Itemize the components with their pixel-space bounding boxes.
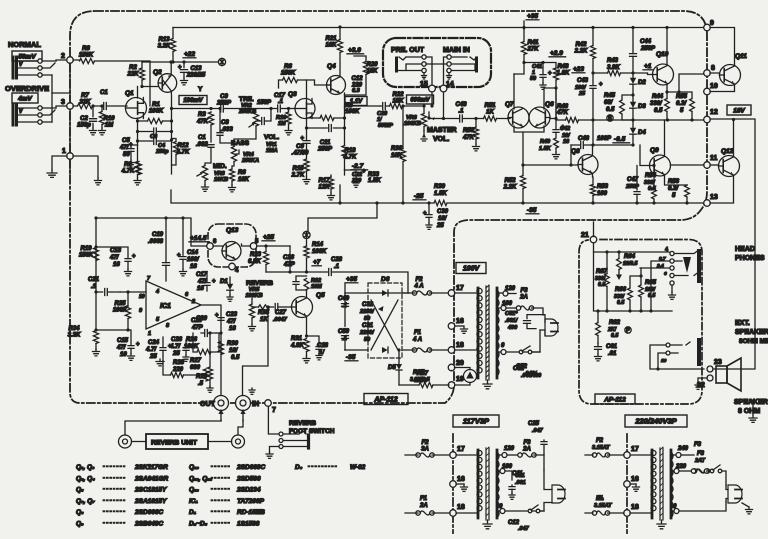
- svg-text:2.2K: 2.2K: [503, 185, 517, 191]
- svg-text:17: 17: [457, 446, 465, 453]
- svg-text:4 A: 4 A: [412, 337, 422, 343]
- resistor R36: [391, 104, 406, 204]
- capacitor C1: [100, 90, 127, 110]
- resistor R50: [462, 119, 480, 151]
- svg-text:OVERDRIVE: OVERDRIVE: [5, 84, 49, 93]
- svg-text:2SA1015Y: 2SA1015Y: [134, 498, 167, 505]
- jack PRE OUT contacts: [397, 55, 427, 79]
- legend column 2: [189, 464, 265, 528]
- svg-text:C31: C31: [362, 323, 374, 329]
- svg-text:NORMAL: NORMAL: [8, 40, 41, 49]
- transistor Q10: [653, 51, 674, 85]
- svg-text:.0068: .0068: [148, 239, 164, 245]
- svg-text:MASTER: MASTER: [427, 127, 457, 134]
- wire Q2 emitter: [170, 62, 172, 75]
- svg-text:10K: 10K: [238, 177, 250, 183]
- svg-text:19: 19: [456, 376, 464, 383]
- ext spk contacts: [650, 342, 704, 371]
- foot switch jack: [279, 431, 309, 449]
- svg-text:16: 16: [190, 264, 197, 270]
- node 21: [581, 222, 597, 243]
- tx2 tap 120: [497, 446, 520, 458]
- node 9: [704, 20, 714, 31]
- svg-text:R22: R22: [392, 92, 404, 98]
- capacitor C17t: [274, 93, 295, 112]
- capacitor C25b: [528, 421, 547, 455]
- tx3 core: [657, 447, 666, 529]
- transistor Q8: [571, 148, 598, 175]
- hp jack sleeve: [697, 251, 701, 281]
- svg-text:.01: .01: [608, 351, 617, 357]
- svg-text:+14.5: +14.5: [190, 235, 207, 242]
- wire -35 rail: [171, 190, 704, 205]
- svg-text:10: 10: [710, 83, 718, 90]
- svg-text:-35: -35: [346, 354, 356, 361]
- svg-text:C50: C50: [338, 329, 350, 335]
- resistor R26: [184, 337, 199, 350]
- svg-text:+1: +1: [644, 63, 652, 70]
- svg-text:R55: R55: [676, 94, 688, 100]
- reverb fb network2: [163, 331, 213, 392]
- svg-text:14: 14: [446, 81, 454, 88]
- svg-text:C8: C8: [221, 120, 229, 126]
- label PRE OUT: [391, 47, 425, 54]
- node b17: [450, 446, 465, 458]
- svg-text:+: +: [132, 254, 136, 260]
- svg-text:VOL.: VOL.: [264, 134, 279, 141]
- capacitor C22: [351, 172, 362, 184]
- label -2.7: [351, 163, 368, 170]
- resistor R56: [668, 179, 689, 205]
- svg-text:R25: R25: [114, 301, 126, 307]
- capacitor C12e: [351, 76, 363, 94]
- resistor R52: [503, 166, 526, 205]
- resistor R18: [342, 126, 357, 170]
- resistor R37: [399, 370, 449, 388]
- svg-text:50: 50: [123, 152, 130, 158]
- resistor R49: [539, 138, 560, 159]
- capacitor C41: [522, 61, 552, 90]
- svg-text:Q12: Q12: [721, 148, 734, 155]
- svg-text:10: 10: [139, 294, 145, 300]
- resistor R6: [279, 64, 307, 102]
- transistor Q2: [153, 69, 177, 92]
- resistor R6b: [229, 169, 250, 192]
- svg-text:22K: 22K: [126, 72, 139, 78]
- svg-text:220/240V3P: 220/240V3P: [634, 417, 677, 426]
- transistor Q6: [529, 101, 554, 128]
- svg-text:13: 13: [710, 194, 718, 201]
- svg-text:.5: .5: [198, 381, 204, 387]
- speaker panel dashed box: [579, 240, 702, 405]
- svg-text:16: 16: [563, 139, 570, 145]
- svg-text:PHONES: PHONES: [735, 255, 765, 262]
- svg-text:AP-112: AP-112: [603, 396, 626, 403]
- ground input: [47, 170, 57, 177]
- label VOL VR1: [264, 134, 279, 154]
- ps tap 120: [497, 286, 516, 296]
- svg-text:27K: 27K: [526, 47, 539, 53]
- svg-text:17: 17: [631, 446, 639, 453]
- wire tone top line: [200, 107, 220, 110]
- wire reverb feed: [95, 218, 97, 330]
- svg-text:68/: 68/: [604, 100, 614, 106]
- svg-text:PRE. OUT: PRE. OUT: [391, 47, 425, 54]
- node 15: [420, 57, 435, 92]
- svg-text:MID.: MID.: [213, 163, 227, 170]
- wire R41 bottom: [514, 63, 524, 75]
- capacitor C18: [94, 245, 136, 276]
- capacitor C50b: [338, 329, 350, 350]
- svg-text:D₆: D₆: [295, 464, 303, 471]
- svg-text:Q1: Q1: [125, 90, 134, 97]
- svg-text:23: 23: [714, 359, 722, 366]
- label OVERDRIVE: [5, 84, 49, 93]
- capacitor C9t: [216, 94, 290, 112]
- svg-text:2A: 2A: [522, 447, 531, 453]
- svg-text:R31: R31: [291, 336, 303, 342]
- capacitor C28: [307, 257, 409, 293]
- reverb cable R: [238, 420, 243, 435]
- svg-text:8: 8: [166, 323, 170, 329]
- resistor R64: [616, 252, 638, 280]
- svg-text:400: 400: [507, 325, 517, 331]
- wire Q6 base: [550, 88, 556, 119]
- svg-text:250P: 250P: [317, 147, 333, 153]
- fuse F2p: [402, 277, 449, 295]
- svg-text:2SK117GR: 2SK117GR: [134, 464, 168, 471]
- svg-text:150K: 150K: [79, 253, 94, 259]
- resistor R62: [596, 309, 632, 343]
- node 8: [704, 65, 715, 76]
- capacitor C2: [77, 104, 96, 134]
- svg-text:D4: D4: [638, 130, 646, 136]
- label -35: [526, 207, 539, 214]
- wire Q12 emitter: [710, 175, 734, 203]
- svg-text:+35: +35: [527, 13, 538, 20]
- svg-text:1.5K: 1.5K: [434, 191, 447, 197]
- label +2.9: [549, 50, 566, 57]
- svg-text:3: 3: [61, 99, 65, 106]
- chassis line 117V: [452, 434, 454, 534]
- wire Q1 source: [137, 118, 139, 145]
- svg-text:R62: R62: [609, 320, 621, 326]
- resistor R53: [590, 177, 608, 205]
- svg-text:- - - - - - -: - - - - - - -: [103, 497, 125, 503]
- transistor Q5: [292, 292, 326, 318]
- node 2: [61, 53, 73, 63]
- node 11: [704, 155, 718, 168]
- svg-text:9: 9: [710, 20, 714, 27]
- label HEAD PHONES: [735, 246, 765, 262]
- diode D5: [388, 348, 402, 385]
- pot BASS VR4: [231, 140, 259, 169]
- capacitor C26r: [169, 337, 195, 361]
- capacitor C29: [377, 103, 393, 130]
- capacitor C7 150P: [256, 100, 272, 125]
- capacitor C23: [215, 312, 238, 332]
- svg-text:- - - - - - -: - - - - - - -: [103, 475, 125, 481]
- wire C43 extension: [593, 120, 635, 147]
- dashed box Q13: [208, 224, 256, 267]
- svg-text:OUT: OUT: [200, 401, 216, 408]
- svg-text:R15: R15: [292, 166, 304, 172]
- svg-text:Q₆, Q₇: Q₆, Q₇: [76, 498, 95, 505]
- svg-text:330/: 330/: [650, 101, 663, 107]
- svg-text:W-02: W-02: [350, 464, 366, 471]
- svg-text:- - - - - -: - - - - - -: [211, 475, 230, 481]
- svg-text:C32: C32: [362, 302, 374, 308]
- svg-text:10K: 10K: [325, 43, 337, 49]
- svg-text:R66: R66: [615, 287, 627, 293]
- svg-text:- - - - - -: - - - - - -: [211, 509, 230, 515]
- svg-text:.001: .001: [515, 480, 526, 486]
- svg-text:F1: F1: [414, 330, 422, 336]
- svg-text:2SD234: 2SD234: [236, 487, 261, 494]
- resistor R66: [614, 274, 643, 312]
- svg-text:C13: C13: [190, 66, 202, 72]
- svg-text:3.15AT: 3.15AT: [594, 503, 612, 509]
- svg-text:+: +: [324, 343, 328, 349]
- label 4mV box: [12, 93, 38, 103]
- svg-text:TRE.: TRE.: [239, 96, 254, 103]
- svg-text:1MA: 1MA: [266, 148, 278, 154]
- resistor R51: [476, 103, 508, 121]
- wire Q5 collector: [306, 290, 308, 298]
- tx2 tap 0: [497, 504, 542, 514]
- ps transformer core: [486, 285, 489, 380]
- pot MID VR3: [197, 163, 228, 191]
- wire panel top line: [594, 250, 670, 253]
- capacitor C31: [359, 323, 375, 343]
- node 23: [707, 359, 722, 372]
- capacitor C1b: [196, 135, 214, 166]
- resistor R15: [291, 159, 310, 184]
- capacitor C21: [88, 277, 120, 296]
- wire Q2 out to tone: [172, 108, 201, 110]
- wire node14 drop: [442, 92, 445, 120]
- resistor R25: [113, 301, 128, 314]
- svg-text:C12: C12: [351, 76, 363, 82]
- pin 5: [255, 239, 259, 245]
- svg-text:47/: 47/: [226, 319, 237, 325]
- wire Q7 base: [508, 118, 510, 120]
- node 17: [448, 285, 464, 296]
- wire Q9 emitter: [665, 176, 688, 185]
- svg-text:10/: 10/: [438, 216, 448, 222]
- svg-text:R26: R26: [186, 337, 198, 343]
- ext spk sleeve: [697, 340, 701, 364]
- svg-text:0.5: 0.5: [654, 108, 663, 114]
- label Y: [198, 86, 203, 93]
- node c17: [624, 446, 639, 458]
- svg-text:F2: F2: [596, 438, 604, 444]
- svg-text:C23: C23: [226, 312, 238, 318]
- diode D3: [630, 95, 647, 120]
- wire c16 gnd: [630, 484, 640, 491]
- svg-text:- - - - - -: - - - - - -: [211, 464, 230, 470]
- svg-text:2SB649C: 2SB649C: [134, 521, 163, 528]
- svg-text:V: V: [19, 62, 23, 68]
- svg-text:.1: .1: [278, 99, 284, 105]
- svg-text:240: 240: [677, 446, 689, 452]
- svg-text:C21: C21: [88, 277, 100, 283]
- capacitor C30: [423, 201, 449, 229]
- svg-text:+: +: [423, 211, 427, 217]
- svg-text:+: +: [212, 279, 216, 285]
- svg-text:100V: 100V: [463, 266, 481, 273]
- label +35 supply: [345, 276, 358, 293]
- svg-text:C61: C61: [606, 344, 618, 350]
- hp jack contacts: [640, 247, 698, 292]
- capacitor C49: [338, 293, 350, 326]
- svg-text:+3.9: +3.9: [348, 47, 361, 54]
- label -35 supply: [345, 350, 358, 361]
- label AP-112 main: [364, 394, 408, 405]
- svg-text:.1: .1: [458, 109, 464, 115]
- svg-text:R49: R49: [540, 139, 551, 145]
- svg-text:VR5: VR5: [249, 287, 261, 293]
- wire Q8 base line: [521, 163, 578, 166]
- svg-text:C26: C26: [171, 337, 183, 343]
- hp plug triangle: [683, 257, 691, 273]
- resistor R35: [252, 305, 274, 323]
- svg-text:50: 50: [364, 337, 370, 343]
- wire supply top: [345, 292, 409, 294]
- resistor R3: [196, 112, 214, 142]
- chassis frame (dash-dot outline): [70, 11, 707, 403]
- svg-text:EXT.: EXT.: [735, 320, 750, 327]
- pot VR6: [404, 106, 427, 141]
- svg-text:SPEAKER: SPEAKER: [735, 329, 768, 336]
- tx2 tap 100: [497, 464, 513, 480]
- svg-text:+35: +35: [346, 276, 357, 283]
- svg-text:Q₁₁, Q₁₂: Q₁₁, Q₁₂: [189, 475, 213, 482]
- svg-text:C44: C44: [640, 39, 652, 45]
- resistor R39: [434, 184, 447, 206]
- svg-text:Q2: Q2: [153, 69, 162, 76]
- svg-text:Q6: Q6: [545, 101, 554, 108]
- resistor R45: [604, 93, 633, 122]
- transistor Q12: [719, 148, 740, 177]
- capacitor C48: [444, 102, 478, 122]
- svg-text:.001/: .001/: [505, 318, 519, 324]
- svg-text:D6: D6: [381, 276, 390, 283]
- wire node7 down: [268, 407, 278, 434]
- svg-text:10KB: 10KB: [214, 177, 228, 183]
- resistor R43: [593, 58, 635, 76]
- svg-text:20: 20: [456, 360, 464, 367]
- fuse F1p: [402, 330, 449, 352]
- resistor R65: [639, 268, 657, 313]
- svg-text:100K: 100K: [312, 249, 327, 255]
- label 220/240V3P box: [625, 415, 687, 427]
- svg-text:16: 16: [457, 476, 465, 483]
- resistor R8: [70, 46, 150, 106]
- wire Q3 drain to Q4 base: [307, 80, 331, 85]
- svg-text:F2: F2: [421, 440, 429, 446]
- wire node8 step: [667, 74, 704, 92]
- diode D1: [220, 277, 233, 301]
- capacitor C11: [307, 116, 347, 152]
- wire Q6 collector: [544, 86, 558, 109]
- resistor R54: [644, 173, 657, 192]
- svg-text:0: 0: [501, 343, 505, 349]
- wire node15 drop: [430, 92, 433, 108]
- capacitor C20: [191, 316, 216, 337]
- node 22: [697, 375, 713, 389]
- plug220: [726, 485, 742, 503]
- svg-text:R23: R23: [250, 252, 262, 258]
- node 20: [448, 360, 464, 371]
- svg-text:R56: R56: [668, 179, 680, 185]
- c12 bottom: [508, 520, 530, 532]
- svg-text:R30: R30: [227, 341, 239, 347]
- svg-text:Q₉: Q₉: [76, 521, 84, 528]
- svg-text:R53: R53: [597, 184, 609, 190]
- svg-text:4: 4: [235, 268, 239, 274]
- capacitor C8: [217, 109, 234, 147]
- ps transformer secondary: [497, 288, 499, 378]
- diode D2: [630, 73, 647, 97]
- svg-text:C1: C1: [100, 90, 108, 96]
- op-amp IC1: [139, 276, 201, 337]
- svg-text:R1: R1: [152, 102, 160, 108]
- svg-text:F3: F3: [697, 451, 705, 457]
- resistor R9: [121, 145, 142, 185]
- fuse F2b: [405, 440, 450, 457]
- resistor R12: [172, 139, 190, 166]
- R14 sym: [304, 240, 321, 272]
- pot TRE VR2: [234, 96, 259, 146]
- svg-text:Q11: Q11: [735, 53, 747, 60]
- wire y120 line: [591, 118, 704, 121]
- node 16: [448, 318, 467, 333]
- svg-text:2200/: 2200/: [359, 330, 375, 336]
- capacitor C5: [119, 138, 138, 167]
- svg-text:C19: C19: [152, 232, 164, 238]
- svg-text:R43: R43: [607, 58, 619, 64]
- reverb unit box: [146, 434, 208, 449]
- wire IN riser: [243, 307, 269, 395]
- input jack NORMAL: [13, 57, 56, 78]
- wire normal jack to node 2: [52, 60, 70, 93]
- svg-text:5: 5: [255, 239, 259, 245]
- svg-text:0.5: 0.5: [617, 300, 624, 306]
- svg-text:47K: 47K: [556, 110, 569, 116]
- svg-text:7: 7: [147, 276, 151, 282]
- resistor R7: [73, 93, 101, 109]
- svg-text:10: 10: [661, 358, 667, 364]
- svg-text:C24: C24: [148, 340, 160, 346]
- svg-text:+: +: [191, 344, 195, 350]
- label +1: [643, 63, 652, 70]
- svg-text:0.5: 0.5: [611, 333, 618, 339]
- label REVERB FOOT SWITCH: [289, 420, 335, 435]
- svg-text:R39: R39: [434, 184, 446, 190]
- resistor R16: [276, 109, 292, 135]
- svg-text:.0047: .0047: [273, 317, 288, 323]
- wire b16 gnd: [456, 484, 468, 491]
- resistor R17: [318, 175, 334, 200]
- svg-text:C27: C27: [275, 310, 287, 316]
- wire wiper line: [430, 117, 444, 120]
- wire Q10 base: [633, 73, 653, 75]
- wire IC1 out: [201, 305, 221, 395]
- svg-text:D₁: D₁: [189, 509, 196, 516]
- wire Q4 out long: [345, 105, 381, 107]
- capacitor C47: [625, 166, 640, 205]
